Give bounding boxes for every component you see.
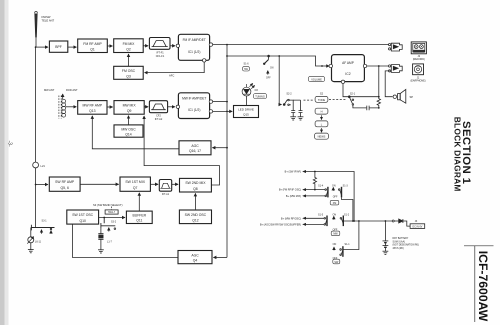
- svg-text:S2: S2: [320, 91, 324, 95]
- wire bus to AGC Q4: [213, 256, 227, 258]
- pin MW IF meter out: [209, 110, 212, 113]
- svg-text:VOLUME: VOLUME: [311, 78, 322, 81]
- resistor R speaker shunt: [377, 97, 380, 108]
- svg-text:OFF: OFF: [266, 78, 271, 80]
- svg-text:Q2: Q2: [126, 47, 131, 51]
- connector contact to DC jack: [392, 220, 394, 222]
- svg-text:MW MIX: MW MIX: [123, 103, 137, 107]
- label VOLUME: [308, 76, 324, 81]
- connector plug to J2: [389, 43, 403, 51]
- svg-text:Q9: Q9: [127, 109, 132, 113]
- oscillator MW OSC Q14: [114, 125, 143, 137]
- pin AF tone: [341, 80, 344, 83]
- inductor L6-11 variable: [27, 228, 34, 250]
- svg-text:Q15: Q15: [243, 113, 249, 117]
- resistor R B+ link: [313, 172, 316, 190]
- wire SW 2ND OSC to SW 2ND MIX: [194, 193, 196, 210]
- wire FM RF AMP to FM MIX: [107, 45, 112, 47]
- svg-text:Q13: Q13: [89, 109, 96, 113]
- svg-text:(NOT DESIGNATION R6): (NOT DESIGNATION R6): [393, 244, 419, 247]
- label SW tag: [243, 67, 250, 71]
- wire AGC Q4 to SW 1ST OSC: [72, 224, 178, 257]
- svg-text:OFF: OFF: [333, 195, 338, 198]
- svg-text:S3 (SW BAND SELECT): S3 (SW BAND SELECT): [93, 203, 123, 207]
- inductor L21: [33, 162, 39, 168]
- svg-text:D3: D3: [255, 89, 259, 92]
- AGC Q16,17: [179, 141, 211, 155]
- svg-text:Q7: Q7: [133, 186, 138, 190]
- op-amp FM IF AMP/DET IC1 (1/2): [178, 34, 209, 60]
- svg-text:S1-6: S1-6: [243, 63, 249, 66]
- svg-text:NEWS: NEWS: [318, 135, 326, 139]
- label MW tag: [331, 231, 340, 236]
- svg-text:SW RF AMP: SW RF AMP: [55, 180, 75, 184]
- svg-text:Q1: Q1: [90, 47, 95, 51]
- svg-text:AFC: AFC: [169, 74, 174, 78]
- switch S2-2 tone: [283, 99, 289, 105]
- svg-text:SW 1ST OSC: SW 1ST OSC: [72, 213, 93, 217]
- svg-text:B+ (MW MIX): B+ (MW MIX): [286, 195, 301, 198]
- mixer SW 2ND MIX Q8: [180, 178, 212, 192]
- filter IFT-A1: [159, 180, 171, 192]
- connector plug to J1: [389, 65, 403, 73]
- svg-text:Q11: Q11: [136, 219, 142, 223]
- svg-text:SW 1ST MIX: SW 1ST MIX: [125, 180, 145, 184]
- svg-text:ON: ON: [333, 243, 337, 246]
- wire tone linkage dashed: [304, 99, 314, 101]
- svg-text:S3-2: S3-2: [111, 220, 117, 223]
- pin FM IF output: [209, 43, 212, 46]
- svg-text:S3-1: S3-1: [41, 219, 47, 222]
- AGC Q4: [178, 251, 212, 264]
- svg-text:B+ (AGC/SW RF/SW OSC/BUFFER): B+ (AGC/SW RF/SW OSC/BUFFER): [260, 224, 301, 227]
- wire FM OSC to FM MIX: [128, 54, 130, 66]
- wire SW 1ST MIX to IFT-A1: [150, 183, 158, 185]
- pin AF out: [363, 64, 366, 67]
- svg-text:J3: J3: [415, 220, 418, 223]
- wire S1-3 to rail: [342, 197, 353, 221]
- filter CF2 IFT-A2: [149, 101, 167, 113]
- svg-text:H: H: [321, 110, 323, 114]
- svg-text:FM: FM: [333, 202, 336, 205]
- svg-text:ON: ON: [332, 185, 336, 188]
- svg-text:S1-5: S1-5: [318, 213, 324, 216]
- antenna FM/SW TELE ANT: [35, 12, 38, 38]
- svg-text:SUM-3 (AA): SUM-3 (AA): [393, 240, 406, 243]
- crystal select box SW1-7: [105, 210, 118, 214]
- svg-text:AF AMP: AF AMP: [342, 61, 354, 65]
- oscillator SW 1ST OSC Q10: [67, 210, 99, 224]
- svg-text:L1-7: L1-7: [107, 240, 112, 243]
- wire antenna to BPF: [36, 46, 48, 48]
- label SW tag: [333, 259, 340, 264]
- svg-text:IC1 (1/2): IC1 (1/2): [188, 108, 200, 112]
- jack J1 EARPHONE: [413, 64, 424, 75]
- svg-text:B+ (SW IF/AF): B+ (SW IF/AF): [285, 171, 301, 174]
- svg-text:MW: MW: [333, 233, 338, 236]
- svg-text:Q3: Q3: [126, 74, 131, 78]
- wire CF1 to FM IF pin: [170, 45, 175, 47]
- svg-text:BUFFER: BUFFER: [133, 214, 147, 218]
- mixer MW MIX Q9: [114, 101, 144, 115]
- svg-text:B+ (FM RF/IF OSC): B+ (FM RF/IF OSC): [279, 189, 301, 192]
- label TUNING: [253, 94, 266, 99]
- page edge scan band: [0, 0, 5, 325]
- wire MW IF to LED DRIVE: [213, 110, 233, 112]
- wire BUFFER to SW 1ST MIX: [138, 193, 140, 211]
- svg-text:MW OSC: MW OSC: [121, 127, 136, 131]
- svg-text:S1-1: S1-1: [344, 243, 350, 246]
- pin MW IF output: [209, 100, 212, 103]
- svg-text:IC1 (1/2): IC1 (1/2): [188, 50, 200, 54]
- speaker SP: [393, 89, 406, 103]
- wire antenna to SW RF AMP: [36, 184, 48, 186]
- svg-text:L6-11: L6-11: [35, 241, 42, 244]
- svg-text:S1-4: S1-4: [318, 185, 324, 188]
- oscillator FM OSC Q3: [114, 66, 144, 79]
- svg-text:Q10: Q10: [79, 219, 86, 223]
- svg-text:IFT-A2: IFT-A2: [155, 118, 163, 121]
- svg-text:MW IF AMP/DET: MW IF AMP/DET: [182, 97, 206, 101]
- wire power rail: [343, 220, 392, 222]
- svg-text:Q12: Q12: [192, 218, 199, 222]
- switch S2-1 tone: [348, 96, 353, 105]
- wire bus to AGC input: [212, 147, 227, 149]
- svg-text:S2-1: S2-1: [350, 93, 356, 96]
- svg-text:Q5, 6: Q5, 6: [61, 186, 69, 190]
- pin FM IF input: [176, 44, 179, 47]
- svg-text:SW: SW: [244, 68, 249, 71]
- filter CF1 IFT-F1: [149, 38, 170, 50]
- wire SW 2nd IF into MW MIX: [144, 116, 219, 185]
- diode D3 tuning LED: [242, 83, 255, 105]
- amplifier BUFFER Q11: [126, 211, 152, 223]
- antenna MW ROD ANT: [59, 94, 66, 119]
- wire FM detector out (top bus): [213, 44, 389, 46]
- crystal X1: [98, 229, 103, 250]
- svg-text:S2-2: S2-2: [286, 93, 292, 96]
- wire IFT-A1 to SW 2ND MIX: [172, 183, 178, 185]
- svg-text:Q16, 17: Q16, 17: [189, 149, 201, 153]
- wire MW MIX to filter CF2: [144, 106, 148, 108]
- mixer FM MIX Q2: [114, 39, 144, 53]
- svg-text:SW 2ND OSC: SW 2ND OSC: [185, 213, 207, 217]
- svg-text:S1-3: S1-3: [343, 185, 349, 188]
- filter BPF: [49, 41, 67, 52]
- svg-text:IC2: IC2: [345, 72, 350, 76]
- svg-text:Q14: Q14: [125, 132, 132, 136]
- svg-text:ROD ANT: ROD ANT: [66, 88, 78, 92]
- svg-text:FM OSC: FM OSC: [122, 69, 136, 73]
- svg-text:SW: SW: [334, 261, 339, 264]
- svg-text:Q4: Q4: [193, 259, 198, 263]
- wire MW IF out to detector bus: [213, 101, 227, 103]
- svg-text:B+ (MW RF/OSC): B+ (MW RF/OSC): [281, 217, 301, 220]
- svg-text:FM RF AMP: FM RF AMP: [83, 42, 102, 46]
- capacitor C tone1: [289, 100, 295, 117]
- battery BATT 4x AA: [383, 221, 389, 251]
- svg-text:SW 2ND MIX: SW 2ND MIX: [185, 181, 206, 185]
- op-amp AF AMP IC2: [332, 55, 365, 82]
- svg-text:(EARPHONE): (EARPHONE): [410, 80, 425, 83]
- wire to tone switch S2-2: [279, 56, 281, 105]
- svg-text:(RECORD): (RECORD): [413, 58, 425, 61]
- svg-text:TONE: TONE: [318, 98, 325, 102]
- wire AF signal line from bus: [227, 56, 322, 66]
- wire CF2 to MW IF pin: [168, 106, 175, 108]
- svg-text:SW1-7: SW1-7: [108, 212, 116, 214]
- amplifier SW RF AMP Q5,6: [49, 177, 80, 191]
- op-amp MW IF AMP/DET IC1 (1/2): [178, 93, 209, 119]
- wire MW RF AMP to MW MIX: [107, 106, 113, 108]
- wire MW OSC to MW MIX: [128, 116, 130, 125]
- wire AF out: [367, 65, 389, 67]
- svg-text:CF1-F1: CF1-F1: [156, 55, 165, 58]
- capacitor C tone3: [353, 105, 379, 110]
- svg-text:L: L: [321, 122, 323, 126]
- svg-text:Q8: Q8: [193, 187, 198, 191]
- switch S1-6: [263, 55, 269, 75]
- oscillator SW 2ND OSC Q12: [179, 210, 211, 224]
- wire SW 1ST OSC to BUFFER: [99, 217, 125, 219]
- wire plug J1 to speaker line: [385, 71, 392, 97]
- svg-text:ICF-7600AW: ICF-7600AW: [476, 251, 490, 322]
- pin FM IF AFC: [203, 59, 206, 62]
- svg-text:S1-2: S1-2: [344, 213, 350, 216]
- svg-text:-3-: -3-: [7, 141, 13, 147]
- svg-text:TELE ANT: TELE ANT: [42, 19, 55, 23]
- svg-text:LED DRIVE: LED DRIVE: [238, 108, 254, 112]
- amplifier FM RF AMP Q1: [78, 39, 108, 53]
- wire AFC feedback: [145, 62, 205, 73]
- svg-text:MW RF AMP: MW RF AMP: [83, 103, 103, 107]
- wire BPF to FM RF AMP: [68, 46, 77, 48]
- wire into AF AMP: [322, 65, 329, 67]
- node detector bus vertical: [226, 45, 228, 258]
- svg-text:TUNING: TUNING: [255, 95, 265, 98]
- svg-text:AGC: AGC: [191, 144, 199, 148]
- svg-text:FM IF AMP/DET: FM IF AMP/DET: [183, 38, 206, 42]
- svg-text:DC IN 6V: DC IN 6V: [413, 226, 423, 228]
- pin AF in: [329, 64, 332, 67]
- svg-text:FM/SW: FM/SW: [42, 15, 51, 19]
- jack J2 RECORD: [411, 42, 426, 54]
- label FM tag: [330, 200, 339, 205]
- wire AGC feedback to MW RF AMP: [92, 116, 179, 149]
- diode D4 polarity: [394, 219, 410, 226]
- footer rule: [464, 246, 494, 322]
- mixer SW 1ST MIX Q7: [120, 177, 150, 191]
- amplifier LED DRIVE Q15: [234, 106, 259, 118]
- svg-text:FM MIX: FM MIX: [123, 42, 136, 46]
- svg-text:ON: ON: [270, 68, 274, 70]
- svg-text:ON: ON: [333, 213, 337, 216]
- svg-text:AGC: AGC: [191, 253, 199, 257]
- capacitor C tone2: [289, 100, 302, 117]
- wire S1-1 to rail: [343, 221, 359, 250]
- pin MW IF input: [176, 105, 179, 108]
- svg-text:4PCS (R6): 4PCS (R6): [393, 248, 404, 250]
- svg-text:DRY BATTERY: DRY BATTERY: [393, 237, 409, 240]
- svg-text:IFT-A1: IFT-A1: [162, 193, 170, 196]
- svg-text:SP: SP: [410, 95, 414, 99]
- svg-text:MW ANT: MW ANT: [44, 88, 55, 92]
- svg-text:BPF: BPF: [55, 45, 62, 49]
- wire SW RF AMP to SW 1ST MIX: [80, 183, 119, 185]
- wire rod ant to MW RF AMP: [66, 106, 77, 108]
- wire antenna vertical bus: [35, 37, 37, 228]
- wire FM MIX to filter CF1: [143, 45, 148, 47]
- wire AF tone pin down: [343, 84, 379, 97]
- svg-text:L21: L21: [41, 164, 46, 168]
- svg-text:BLOCK DIAGRAM: BLOCK DIAGRAM: [453, 117, 463, 192]
- amplifier MW RF AMP Q13: [78, 101, 107, 115]
